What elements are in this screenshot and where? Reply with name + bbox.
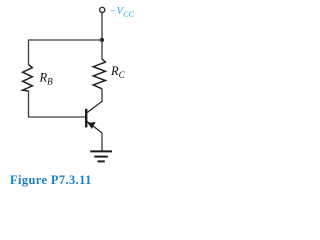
- wire: emitter to ground: [101, 133, 103, 152]
- transistor Q1 collector diagonal: [87, 101, 102, 112]
- transistor Q1 emitter arrow (PNP): [88, 122, 96, 129]
- wire: right vertical above resistor: [101, 40, 103, 59]
- wire: base horizontal: [28, 116, 86, 118]
- resistor RB: [23, 65, 33, 91]
- svg-text:Figure P7.3.11: Figure P7.3.11: [10, 173, 92, 187]
- wire: left vertical lower: [28, 91, 30, 117]
- wire: top horizontal: [29, 39, 103, 41]
- transistor Q1 emitter diagonal: [87, 121, 102, 133]
- transistor Q1 base bar: [85, 109, 87, 128]
- node junction dot: [100, 38, 104, 42]
- wire: left vertical upper: [28, 39, 30, 64]
- terminal circle (-Vcc): [100, 7, 105, 12]
- wire: collector vertical: [101, 89, 103, 102]
- resistor RC: [93, 59, 105, 89]
- ground: [90, 151, 112, 161]
- wire: terminal to junction: [101, 13, 103, 40]
